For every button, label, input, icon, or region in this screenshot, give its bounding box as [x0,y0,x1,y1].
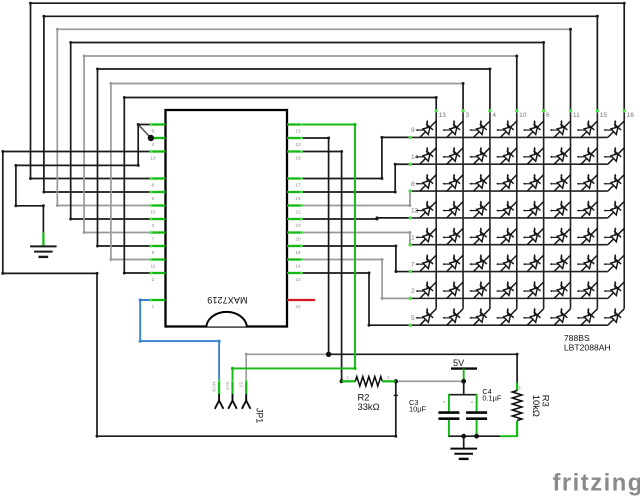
wire net DIG pin 6 to matrix column 4 [98,69,490,246]
pin 20 [287,231,302,233]
wire net DIG pin 3 to matrix column 6 [71,43,544,220]
wire ground net pins 9,4 [16,125,151,233]
pin 14 [287,258,302,260]
LED r5c2 [442,227,463,245]
matrix column pin 3 [462,111,464,309]
junction pin 4 [148,135,154,141]
wire net DIG pin 8 to matrix column 16 [31,3,625,178]
junction R2 pin2 node [394,379,398,383]
LED r4c3 [469,200,490,218]
svg-text:JP1: JP1 [254,408,264,423]
LED r4c6 [550,200,571,218]
LED r3c2 [442,174,463,192]
wire net DIG pin 7 to matrix column 10 [84,56,517,233]
matrix row pin 5 [410,324,608,326]
wire DIN net pin 1 to MOSI [140,300,219,381]
LED r4c8 [603,200,624,218]
wire net DIG pin 10 to matrix column 11 [57,29,570,205]
pin 6 [151,245,166,247]
pin 23 [287,218,302,220]
matrix column pin 15 [596,111,598,309]
wire SEG pin 16 to matrix row 7 [302,246,410,272]
LED r5c7 [577,227,598,245]
wire column 16 drop [623,3,625,110]
LED r7c6 [550,281,571,299]
wire net DIG pin 11 to matrix column 3 [111,84,463,260]
svg-text:16: 16 [627,112,635,119]
pin 2 [151,272,166,274]
matrix column pin 4 [489,111,491,309]
LED r1c2 [442,120,463,138]
LED r6c1 [415,254,436,272]
LED r3c1 [415,174,436,192]
LED r4c7 [577,200,598,218]
wire column 3 drop [462,84,464,111]
matrix row pin 9 [410,136,608,138]
LED r2c6 [550,147,571,165]
svg-text:4: 4 [152,142,155,148]
matrix row pin 1 [410,244,608,246]
wire CS horizontal SS to R3 [246,354,328,380]
5V supply symbol [451,367,477,369]
pin 13 [287,123,302,125]
LED r2c8 [603,147,624,165]
matrix column pin 10 [516,111,518,309]
wire SEG pin 22 to matrix row 5 [302,273,410,325]
ground GND2 symbol [463,436,465,448]
JP1 pin MOSI [218,381,220,394]
svg-text:MAX7219: MAX7219 [207,295,247,305]
svg-text:9: 9 [152,129,155,135]
LED r6c3 [469,254,490,272]
svg-text:11: 11 [151,264,156,270]
JP1 pin SCK [231,381,233,394]
pin 8 [151,177,166,179]
LED r2c5 [523,147,544,165]
LED r4c5 [523,200,544,218]
LED r6c7 [577,254,598,272]
wire column 11 drop [570,29,572,110]
LED r4c2 [442,200,463,218]
svg-text:fritzing: fritzing [553,470,640,497]
pin 24 DOUT [287,299,315,301]
pin 21 [287,204,302,206]
capacitor C3 [448,394,450,412]
svg-text:17: 17 [295,183,301,189]
svg-text:15: 15 [295,196,301,202]
matrix column pin 13 [435,111,437,309]
LED r8c3 [469,308,490,326]
JP1 pin SS [245,381,247,394]
svg-text:8: 8 [152,183,155,189]
pin 17 [287,177,302,179]
LED r8c4 [496,308,517,326]
svg-text:16: 16 [295,250,301,256]
svg-text:SCK: SCK [225,382,230,391]
pin 15 [287,191,302,193]
LED r8c1 [415,308,436,326]
svg-text:13: 13 [439,112,447,119]
svg-text:4: 4 [492,112,496,119]
wire CLK net pin 13 to SCK [233,125,356,395]
pin 19 [151,150,166,152]
LED r1c6 [550,120,571,138]
resistor R2 [342,380,356,382]
LED r5c6 [550,227,571,245]
pin 9 [151,123,166,125]
LED r1c8 [603,120,624,138]
LED r7c3 [469,281,490,299]
svg-text:3: 3 [152,223,155,229]
LED r3c6 [550,174,571,192]
LED r6c4 [496,254,517,272]
svg-text:5: 5 [411,315,415,322]
svg-text:15: 15 [600,112,608,119]
svg-text:2: 2 [152,277,155,283]
svg-text:33kΩ: 33kΩ [358,401,380,412]
wire column 13 drop [435,98,437,111]
LED r4c4 [496,200,517,218]
pin 22 [287,272,302,274]
matrix row pin 7 [410,271,608,273]
svg-text:1: 1 [411,235,415,242]
LED r1c3 [469,120,490,138]
svg-text:7: 7 [152,237,155,243]
matrix column pin 6 [543,111,545,309]
LED r6c5 [523,254,544,272]
LED r2c1 [415,147,436,165]
svg-text:6: 6 [546,112,550,119]
LED r5c8 [603,227,624,245]
wire ISET pin 18 to R2 [302,152,342,382]
wire SEG pin 23 to matrix row 12 [302,218,410,219]
wire column 4 drop [489,69,491,111]
svg-text:1: 1 [346,375,349,380]
svg-text:8: 8 [411,181,415,188]
svg-text:SS: SS [239,382,244,388]
svg-text:0.1µF: 0.1µF [482,393,502,402]
LED r8c6 [550,308,571,326]
svg-text:2: 2 [387,375,390,380]
svg-text:1: 1 [152,304,155,310]
matrix row pin 8 [410,190,608,192]
wire column 15 drop [596,16,598,110]
LED r2c3 [469,147,490,165]
wire net DIG pin 5 to matrix column 15 [44,16,597,192]
svg-text:21: 21 [295,210,301,216]
svg-text:24: 24 [295,304,301,310]
svg-text:6: 6 [152,250,155,256]
svg-text:23: 23 [295,223,301,229]
pin 5 [151,191,166,193]
LED r5c1 [415,227,436,245]
svg-text:5: 5 [152,196,155,202]
svg-text:13: 13 [295,129,301,135]
LED r2c2 [442,147,463,165]
LED r6c8 [603,254,624,272]
svg-text:9: 9 [411,127,415,134]
svg-text:LBT2088AH: LBT2088AH [564,343,611,353]
wire net DIG pin 2 to matrix column 13 [124,98,436,274]
LED r7c5 [523,281,544,299]
svg-text:7: 7 [411,261,415,268]
capacitor C4 [476,394,478,412]
wire SEG pin 15 to matrix row 14 [302,164,410,192]
pin 7 [151,231,166,233]
pin 16 [287,245,302,247]
LED r3c8 [603,174,624,192]
LED r1c1 [415,120,436,138]
pin 4 [151,137,166,139]
matrix row pin 12 [410,217,608,219]
LED r3c3 [469,174,490,192]
svg-text:14: 14 [295,264,301,270]
svg-text:22: 22 [295,277,301,283]
svg-text:5V: 5V [453,358,465,368]
svg-text:12: 12 [295,142,301,148]
wire CS net pin 12 [302,138,329,354]
junction CS node [326,352,331,357]
pin 10 [151,204,166,206]
LED r7c2 [442,281,463,299]
LED r7c7 [577,281,598,299]
LED r6c6 [550,254,571,272]
svg-text:11: 11 [573,112,580,119]
LED r7c8 [603,281,624,299]
LED r8c5 [523,308,544,326]
LED r1c4 [496,120,517,138]
svg-text:788BS: 788BS [564,333,590,343]
LED r2c7 [577,147,598,165]
svg-text:1: 1 [519,385,522,390]
wire SEG pin 14 to matrix row 2 [302,260,410,299]
svg-text:20: 20 [295,237,301,243]
LED r5c4 [496,227,517,245]
matrix row pin 2 [410,297,608,299]
svg-text:MOSI: MOSI [212,382,217,393]
wire SEG pin 20 to matrix row 1 [302,233,410,245]
pin 3 [151,218,166,220]
svg-text:18: 18 [295,156,301,162]
LED r8c8 [603,308,624,326]
matrix column pin 11 [570,111,572,309]
LED r5c5 [523,227,544,245]
LED r1c7 [577,120,598,138]
svg-text:19: 19 [150,156,156,162]
wire SEG pin 21 to matrix row 8 [302,191,410,205]
svg-text:3: 3 [465,112,469,119]
LED r6c2 [442,254,463,272]
matrix column pin 16 [623,111,625,309]
wire cap bottom rail [449,435,500,437]
LED r8c7 [577,308,598,326]
LED r7c1 [415,281,436,299]
junction cap gnd nodes [461,434,466,439]
wire column 6 drop [543,43,545,111]
chip notch [206,312,247,327]
matrix row pin 14 [410,163,608,165]
pin 11 [151,258,166,260]
wire R2 to 5V junction [396,380,464,382]
LED r2c4 [496,147,517,165]
junction 5V node [461,379,466,384]
pin 12 [287,137,302,139]
svg-text:2: 2 [411,288,415,295]
svg-text:10: 10 [150,210,156,216]
LED r1c5 [523,120,544,138]
LED r8c2 [442,308,463,326]
wire SEG pin 17 to matrix row 9 [302,137,410,178]
LED r3c4 [496,174,517,192]
resistor R3 [516,383,518,391]
LED r7c4 [496,281,517,299]
wire column 10 drop [516,56,518,111]
LED r5c3 [469,227,490,245]
LED r3c5 [523,174,544,192]
wire cap top rail [449,394,477,396]
LED r4c1 [415,200,436,218]
IC U1 MAX7219 body [166,110,288,327]
wire V+ net pin 19 to 5V rail [3,152,396,437]
ground GND1 symbol [42,233,44,247]
svg-text:10: 10 [519,112,527,119]
pin 18 [287,150,302,152]
svg-text:10µF: 10µF [409,405,426,414]
wire pin9-pin4 diagonal [138,125,151,139]
pin 1 [151,299,166,301]
LED r3c7 [577,174,598,192]
